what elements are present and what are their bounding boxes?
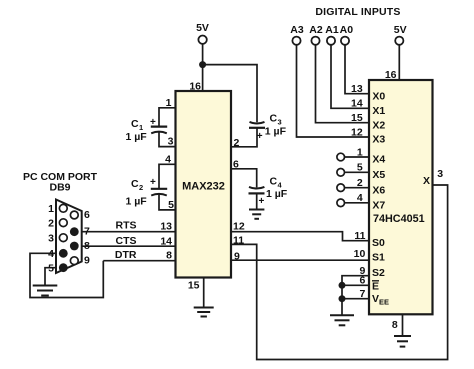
ground below DB9 — [33, 286, 58, 296]
wire RTS: DB9 pin 7 to MAX232 pin 13 — [74, 220, 175, 232]
svg-text:6: 6 — [233, 159, 239, 171]
DB9 pin 8 — [70, 240, 90, 252]
wire A2 to X2 pin 15 — [316, 45, 386, 131]
svg-text:S2: S2 — [372, 267, 385, 279]
svg-text:13: 13 — [351, 83, 363, 95]
DB9 pin 6 — [70, 209, 90, 221]
capacitor C3 — [249, 113, 287, 142]
open terminal X7 pin 4 — [337, 192, 386, 211]
ground below E/VEE junction — [330, 315, 354, 325]
MAX232 pin 14 label — [160, 235, 172, 247]
open terminal X4 pin 1 — [337, 146, 386, 165]
74HC4051 pin 8 to ground — [392, 314, 403, 336]
MAX232 pin 11 label — [233, 235, 244, 247]
power terminal 5V (left, MAX232) — [196, 22, 209, 44]
DB9 pin 3 — [48, 232, 67, 244]
MAX232 pin 12 label — [233, 221, 245, 233]
svg-text:5: 5 — [357, 162, 363, 174]
svg-text:7: 7 — [84, 225, 90, 237]
svg-text:6: 6 — [359, 275, 365, 287]
MAX232 pin 2 label — [234, 137, 240, 149]
svg-text:1 µF: 1 µF — [265, 126, 287, 138]
wire C4 to ground — [256, 193, 258, 209]
svg-text:12: 12 — [351, 126, 363, 138]
terminal A3 — [290, 24, 304, 45]
74HC4051 S0 pin 11 label — [354, 230, 385, 249]
wire MAX232 pin 12 to 74HC4051 S0 — [231, 232, 369, 241]
svg-text:CTS: CTS — [116, 235, 137, 247]
wire C3 to MAX232 pin 2 — [231, 128, 257, 147]
wire CTS: DB9 pin 8 to MAX232 pin 14 — [74, 235, 175, 247]
svg-text:8: 8 — [392, 319, 398, 331]
open terminal X6 pin 2 — [337, 177, 386, 196]
74HC4051 VEE pin 7 — [339, 288, 390, 307]
svg-text:C: C — [270, 176, 278, 188]
svg-text:11: 11 — [354, 230, 365, 242]
svg-text:S1: S1 — [372, 252, 385, 264]
capacitor C2 — [126, 177, 168, 208]
ground below MAX232 pin 15 — [194, 308, 214, 317]
svg-text:12: 12 — [233, 221, 245, 233]
power terminal 5V (right, 74HC4051) — [394, 24, 407, 45]
svg-text:74HC4051: 74HC4051 — [373, 213, 425, 225]
svg-text:2: 2 — [234, 137, 240, 149]
capacitor C1 — [126, 117, 168, 143]
MAX232 pin 5 stub — [159, 193, 176, 211]
svg-text:2: 2 — [357, 177, 363, 189]
svg-text:14: 14 — [351, 98, 363, 110]
DB9 pin 4 — [48, 248, 68, 260]
DB9 pin 5 — [48, 262, 68, 274]
svg-text:A0: A0 — [340, 24, 354, 36]
MAX232 pin 8 label — [166, 250, 172, 262]
terminal A1 — [325, 24, 339, 45]
label PC COM PORT — [23, 171, 98, 183]
terminal A2 — [309, 24, 323, 45]
svg-text:1 µF: 1 µF — [266, 188, 288, 200]
open terminal X5 pin 5 — [337, 162, 386, 181]
svg-text:1: 1 — [48, 203, 54, 215]
svg-text:X4: X4 — [372, 154, 385, 166]
svg-text:5V: 5V — [196, 22, 209, 34]
DB9 pin 1 — [48, 203, 67, 215]
svg-text:+: + — [150, 177, 156, 188]
svg-text:4: 4 — [165, 154, 171, 166]
svg-text:9: 9 — [84, 254, 90, 266]
svg-text:3: 3 — [437, 168, 443, 180]
svg-text:+: + — [257, 131, 263, 142]
svg-text:5: 5 — [168, 199, 174, 211]
wire A1 to X1 pin 14 — [331, 45, 385, 117]
svg-text:MAX232: MAX232 — [182, 181, 225, 193]
svg-text:1: 1 — [357, 146, 363, 158]
svg-text:V: V — [372, 293, 379, 305]
DB9 pin 7 — [70, 225, 90, 237]
svg-text:X3: X3 — [372, 134, 385, 146]
wire 5V to MAX232 pin 16 — [202, 44, 204, 91]
MAX232 pin 1 stub — [159, 97, 176, 127]
svg-text:+: + — [259, 196, 265, 207]
chip U2 74HC4051 — [369, 80, 433, 314]
wire 5V to 74HC4051 pin 16 — [385, 45, 399, 81]
svg-text:A2: A2 — [309, 24, 323, 36]
svg-text:10: 10 — [354, 248, 366, 260]
svg-text:A3: A3 — [290, 24, 304, 36]
MAX232 pin 4 stub — [159, 154, 176, 189]
74HC4051 S1 pin 10 label — [354, 248, 385, 264]
svg-text:X0: X0 — [372, 90, 385, 102]
74HC4051 X output pin 3 — [423, 168, 443, 187]
svg-text:X7: X7 — [372, 199, 385, 211]
wire DB9 pin 5 to ground — [45, 268, 63, 286]
MAX232 pin 9 label — [234, 251, 240, 263]
wire 5V rail to C3 — [203, 65, 257, 123]
capacitor C4 — [249, 176, 288, 207]
wire MAX232 pin 6 to C4 — [231, 169, 257, 188]
MAX232 pin 15 stub and label — [188, 278, 204, 308]
svg-text:C: C — [131, 118, 139, 130]
svg-text:5: 5 — [48, 262, 54, 274]
svg-text:6: 6 — [84, 209, 90, 221]
svg-text:DB9: DB9 — [49, 182, 70, 194]
svg-text:8: 8 — [84, 240, 90, 252]
svg-text:X5: X5 — [372, 169, 385, 181]
label DB9 — [49, 182, 70, 194]
svg-text:DTR: DTR — [115, 249, 137, 261]
svg-text:3: 3 — [48, 232, 54, 244]
svg-text:3: 3 — [168, 136, 174, 148]
svg-text:13: 13 — [160, 221, 172, 233]
svg-text:2: 2 — [48, 217, 54, 229]
svg-text:5V: 5V — [394, 24, 407, 36]
chip U1 MAX232 — [176, 91, 232, 278]
MAX232 pin 3 stub — [159, 131, 176, 147]
svg-text:1 µF: 1 µF — [126, 196, 148, 208]
svg-text:X6: X6 — [372, 184, 385, 196]
svg-text:16: 16 — [385, 69, 397, 81]
wire DTR route from DB9 pin 4 — [30, 253, 103, 297]
svg-text:E: E — [372, 280, 379, 292]
svg-text:4: 4 — [357, 192, 363, 204]
svg-text:15: 15 — [188, 280, 200, 292]
svg-text:X2: X2 — [372, 119, 385, 131]
svg-text:15: 15 — [351, 112, 363, 124]
wire DTR: to MAX232 pin 8 — [103, 249, 175, 261]
DB9 pin 2 — [48, 217, 67, 229]
connector J1 DB9 body — [56, 200, 82, 274]
svg-text:X: X — [423, 175, 430, 187]
svg-text:EE: EE — [379, 298, 389, 307]
terminal A0 — [340, 24, 354, 45]
wire MAX232 pin 11 to X loop — [231, 185, 448, 360]
wire A0 to X0 pin 13 — [345, 45, 385, 102]
svg-text:4: 4 — [48, 248, 54, 260]
MAX232 pin 16 label — [189, 80, 201, 92]
74HC4051 E pin 6 — [339, 275, 380, 293]
svg-text:DIGITAL INPUTS: DIGITAL INPUTS — [315, 6, 400, 18]
74HC4051 S2 pin 9 — [342, 265, 385, 315]
svg-text:1 µF: 1 µF — [126, 131, 148, 143]
label DIGITAL INPUTS — [315, 6, 400, 18]
svg-text:16: 16 — [189, 80, 201, 92]
svg-text:A1: A1 — [325, 24, 339, 36]
wire MAX232 pin 9 to 74HC4051 S1 — [231, 259, 369, 261]
ground below C4 — [249, 210, 264, 219]
svg-text:C: C — [131, 178, 139, 190]
svg-text:1: 1 — [166, 97, 172, 109]
MAX232 pin 6 label — [233, 159, 239, 171]
svg-text:2: 2 — [139, 183, 143, 192]
wire A3 to X3 pin 12 — [297, 45, 386, 146]
svg-text:RTS: RTS — [116, 220, 137, 232]
DB9 pin 9 — [70, 254, 90, 266]
junction dot on 5V rail — [199, 61, 206, 68]
svg-text:C: C — [270, 113, 278, 125]
svg-text:S0: S0 — [372, 237, 385, 249]
svg-text:8: 8 — [166, 250, 172, 262]
svg-text:+: + — [150, 117, 156, 128]
MAX232 pin 13 label — [160, 221, 172, 233]
svg-text:7: 7 — [359, 288, 365, 300]
svg-text:X1: X1 — [372, 105, 385, 117]
ground below 74HC4051 pin 8 — [394, 336, 411, 347]
